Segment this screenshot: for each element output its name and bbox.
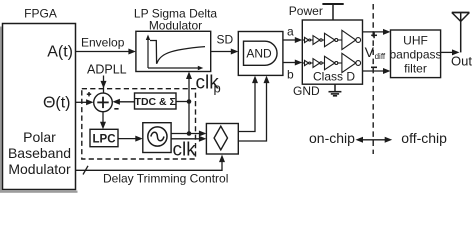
AND gate symbol: [244, 41, 278, 65]
AND box: [238, 32, 283, 76]
svg-text:b: b: [287, 68, 294, 82]
svg-text:p: p: [214, 81, 221, 96]
svg-text:AND: AND: [246, 47, 272, 61]
wire DCO output clk line 2: [171, 138, 201, 140]
graph axes inside modulator: [147, 38, 149, 69]
svg-text:Modulator: Modulator: [149, 19, 202, 33]
wire Class D output plus: [363, 31, 386, 33]
svg-text:Class D: Class D: [313, 70, 355, 84]
wire summing junction to LPC: [102, 112, 104, 124]
FPGA box: [3, 24, 76, 190]
wire TDC to summing junction: [118, 101, 135, 103]
wire delay cell output 1 to AND: [238, 81, 255, 132]
wire feedback vertical clk_p: [188, 77, 190, 134]
svg-text:filter: filter: [404, 61, 427, 75]
summing junction: [94, 93, 113, 112]
bus slash: [83, 166, 88, 175]
antenna: [460, 13, 462, 53]
svg-text:A(t): A(t): [47, 43, 73, 60]
svg-text:Modulator: Modulator: [8, 161, 71, 177]
FPGA box shadow: [0, 27, 2, 193]
wire Class D output minus: [363, 70, 386, 72]
wire AND output b: [283, 62, 297, 64]
wire LPC to DCO: [118, 138, 137, 140]
svg-text:TDC & Σ: TDC & Σ: [135, 96, 176, 108]
double arrow: [360, 139, 388, 141]
svg-text:on-chip: on-chip: [309, 130, 355, 146]
svg-text:diff: diff: [375, 52, 386, 61]
inverter chain row 1: [302, 30, 360, 49]
on-chip off-chip dashed separator: [372, 4, 374, 154]
wire delay cell output 2 to AND: [238, 81, 266, 142]
graph noise-shaping curve: [150, 41, 205, 64]
plus sign: [371, 34, 377, 36]
wire Theta(t) to summing junction: [76, 101, 88, 103]
svg-text:GND: GND: [293, 84, 320, 98]
svg-text:Out: Out: [451, 54, 472, 69]
LPC box: [90, 129, 118, 146]
svg-text:clk: clk: [173, 139, 197, 160]
minus sign: [371, 66, 377, 68]
svg-text:Θ(t): Θ(t): [43, 95, 71, 112]
diamond symbol: [214, 126, 227, 150]
LP sigma delta modulator box: [136, 31, 211, 71]
wire UHF out to antenna: [441, 51, 454, 53]
wire DCO output clk line 1: [171, 133, 201, 135]
svg-text:UHF: UHF: [403, 34, 428, 48]
svg-text:Power: Power: [289, 4, 323, 18]
wire Envelop A(t) to LP modulator: [76, 51, 130, 53]
DCO box: [143, 123, 171, 153]
wire AND output a: [283, 39, 297, 41]
wire delay trimming control: [76, 159, 222, 170]
svg-text:a: a: [287, 25, 294, 39]
wire SD to AND: [211, 51, 232, 53]
svg-text:Baseband: Baseband: [8, 145, 71, 161]
delay cell box: [206, 124, 238, 155]
TDC box: [135, 93, 177, 109]
wire feedback to TDC: [176, 101, 189, 103]
UHF bandpass filter box: [391, 30, 441, 78]
svg-text:ADPLL: ADPLL: [87, 63, 127, 77]
wire ADPLL arrow down: [103, 76, 105, 94]
svg-text:Polar: Polar: [23, 129, 56, 145]
DCO oscillator symbol: [148, 127, 167, 146]
ADPLL dashed box: [82, 89, 196, 159]
junction dot on TDC line: [187, 99, 192, 104]
svg-text:Delay Trimming Control: Delay Trimming Control: [103, 171, 228, 185]
svg-text:SD: SD: [217, 33, 234, 47]
svg-text:bandpass: bandpass: [389, 48, 441, 62]
svg-text:Envelop: Envelop: [81, 36, 125, 50]
svg-text:FPGA: FPGA: [24, 7, 57, 21]
svg-text:off-chip: off-chip: [401, 130, 447, 146]
Class D box: [302, 20, 362, 84]
plus sign at summing input: [87, 93, 91, 95]
svg-text:LPC: LPC: [93, 133, 116, 145]
junction dot on clk line: [187, 131, 192, 136]
minus sign at summing input: [114, 108, 118, 110]
inverter chain row 2: [302, 53, 360, 72]
